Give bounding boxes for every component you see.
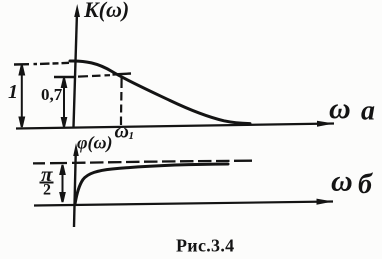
K(omega) response curve (70, 61, 250, 124)
svg-text:1: 1 (8, 81, 18, 103)
svg-text:K(ω): K(ω) (83, 0, 129, 22)
svg-text:φ(ω): φ(ω) (77, 133, 113, 154)
svg-text:Рис.3.4: Рис.3.4 (176, 236, 234, 256)
solid cap at 0.7 level (54, 76, 74, 78)
svg-text:ω1: ω1 (115, 121, 134, 143)
bottom plot y-axis arrowhead (73, 143, 79, 156)
phase curve (75, 164, 228, 204)
top plot x-axis (16, 124, 334, 129)
measure arrow for 0.7 (62, 78, 66, 127)
solid tick crossing curve at 0.7 intersection (113, 74, 132, 75)
dashed level line at K=1 (14, 63, 69, 65)
dashed 0.7 level line from axis to curve (78, 75, 110, 76)
svg-text:a: a (361, 96, 375, 127)
label pi/2 fraction (40, 162, 54, 199)
bottom plot x-axis arrowhead (317, 199, 334, 205)
top plot x-axis arrowhead (317, 121, 334, 127)
top plot y-axis arrowhead (74, 4, 80, 17)
svg-text:2: 2 (43, 182, 51, 199)
svg-text:0,7: 0,7 (41, 85, 63, 104)
dashed asymptote at pi/2 (33, 161, 252, 164)
measure arrow for pi/2 (60, 165, 64, 202)
bottom plot y-axis (74, 150, 76, 227)
svg-text:б: б (358, 169, 373, 200)
bottom plot x-axis (34, 202, 333, 206)
svg-text:ω: ω (331, 165, 353, 198)
dashed vertical line at omega-1 (120, 77, 123, 125)
top plot y-axis (74, 12, 78, 127)
measure arrow for 1 (20, 65, 24, 127)
svg-text:ω: ω (329, 92, 351, 125)
